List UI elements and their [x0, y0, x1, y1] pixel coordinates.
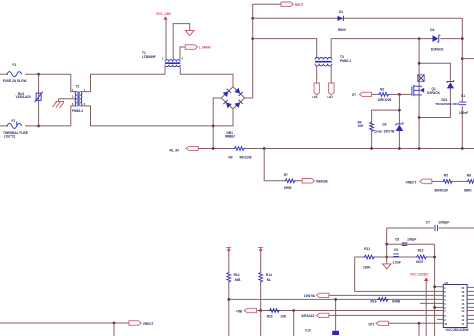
svg-text:R7: R7	[284, 173, 288, 177]
junction rail x399	[398, 147, 401, 150]
svg-text:100nF: 100nF	[459, 111, 468, 115]
svg-text:C7: C7	[426, 220, 430, 224]
svg-text:VRECT: VRECT	[406, 180, 417, 184]
svg-text:NL: NL	[267, 278, 271, 282]
svg-text:PM62-1: PM62-1	[340, 59, 351, 63]
svg-text:680K/1W: 680K/1W	[435, 189, 448, 193]
junction D1 line	[251, 17, 254, 20]
svg-text:T2: T2	[76, 85, 80, 89]
junction R13 line	[227, 298, 230, 301]
junction C10 top	[334, 298, 337, 301]
wire R4 to rail	[371, 132, 373, 148]
resistor R20	[267, 309, 287, 319]
wire T1 bottom pins on AC line	[165, 67, 180, 75]
svg-text:F1: F1	[13, 63, 17, 67]
svg-text:130K: 130K	[363, 265, 371, 269]
svg-text:1000pF: 1000pF	[438, 220, 449, 224]
svg-text:FUSE 2A SLOW: FUSE 2A SLOW	[3, 79, 27, 83]
power port VCC_DC/DC	[410, 273, 429, 336]
junction rail x264	[263, 147, 266, 150]
junction rail x462	[461, 147, 464, 150]
wire mains line L top	[0, 73, 7, 75]
svg-text:4K07: 4K07	[416, 260, 424, 264]
svg-text:C9: C9	[394, 248, 398, 252]
capacitor C7	[426, 220, 449, 231]
junction sense divider	[292, 309, 295, 312]
svg-text:U2: U2	[445, 281, 449, 285]
IC left stub pins	[420, 287, 443, 320]
capacitor C10	[305, 328, 339, 335]
wire T2 pin6 to bridge	[80, 106, 213, 126]
resistor R14	[259, 251, 272, 311]
transistor Q1	[405, 85, 441, 96]
junction aux line	[461, 57, 464, 60]
svg-text:D4: D4	[430, 28, 434, 32]
resistor R2	[378, 87, 392, 101]
junction bottom left	[113, 322, 116, 325]
wire bottom left line	[0, 322, 129, 324]
svg-text:UCC28C42DW: UCC28C42DW	[446, 328, 470, 332]
wire T3 primary line	[253, 39, 463, 58]
svg-text:10R/1206: 10R/1206	[378, 98, 392, 102]
svg-text:840B: 840B	[392, 299, 400, 303]
svg-text:Zener 15V/TB: Zener 15V/TB	[374, 130, 395, 134]
svg-text:LTB84NF: LTB84NF	[142, 55, 156, 59]
svg-text:R9: R9	[229, 156, 233, 160]
wire clamp right vertical	[461, 18, 463, 148]
svg-text:V150LA20: V150LA20	[16, 95, 31, 99]
svg-text:VCC_LBV: VCC_LBV	[156, 12, 172, 16]
wire bridge plus up	[245, 4, 281, 98]
svg-text:TRANZORB 200V: TRANZORB 200V	[435, 102, 459, 106]
wire from F1 to T2 pin1	[27, 74, 77, 91]
svg-text:8RB8J: 8RB8J	[225, 135, 235, 139]
wire mains line N bottom	[0, 125, 7, 127]
diode D4	[430, 28, 444, 52]
wire from F2 to T2 pin3	[27, 106, 77, 126]
wire comp top line	[387, 228, 474, 264]
junction T3 line	[251, 37, 254, 40]
port VRECT mid	[406, 179, 467, 184]
capacitor C8	[395, 237, 416, 245]
svg-text:R14: R14	[266, 273, 272, 277]
svg-text:PM62-2: PM62-2	[72, 109, 83, 113]
svg-text:10K: 10K	[358, 124, 365, 128]
svg-text:RECT: RECT	[295, 3, 304, 7]
svg-text:R600: R600	[338, 28, 346, 32]
junction D4 to clamp	[461, 37, 464, 40]
svg-text:D2PACK: D2PACK	[431, 48, 445, 52]
power VR tap R14	[258, 247, 263, 250]
svg-text:R12: R12	[418, 248, 424, 252]
svg-text:R8: R8	[467, 174, 471, 178]
svg-text:LB4: LB4	[328, 95, 334, 99]
wire T3 secondary pins down	[317, 66, 332, 83]
svg-text:680K: 680K	[464, 189, 472, 193]
svg-text:C10: C10	[305, 328, 311, 332]
junction drain node	[418, 37, 421, 40]
junction comp v1	[385, 243, 388, 246]
resistor R4	[358, 121, 374, 133]
wire bridge left pin down	[213, 98, 221, 149]
resistor R11	[363, 247, 375, 270]
resistor R8	[464, 174, 474, 193]
port RL_IN	[170, 146, 199, 152]
zener DZ1	[435, 80, 459, 106]
svg-text:R5: R5	[444, 174, 448, 178]
wire sense branch	[264, 149, 302, 181]
junction box top	[418, 62, 421, 65]
svg-text:D1: D1	[339, 10, 343, 14]
svg-text:R19: R19	[371, 299, 377, 303]
svg-text:100pF: 100pF	[407, 237, 416, 241]
junction rail x213	[212, 147, 215, 150]
junction AC/bridge	[212, 125, 215, 128]
zener D3	[374, 122, 403, 133]
port +5B	[236, 308, 443, 313]
port S/R1A32	[301, 313, 443, 318]
svg-text:ST: ST	[352, 93, 356, 97]
svg-text:L_MAIN: L_MAIN	[199, 46, 212, 50]
junction rail x371	[370, 147, 373, 150]
transistor Q1 tab	[418, 75, 424, 82]
junction comp v2	[385, 256, 388, 259]
port ST gate drive	[352, 92, 378, 97]
transformer T3	[315, 55, 351, 66]
junction R4 tap	[398, 109, 401, 112]
wire ground to T2 pin2	[59, 98, 77, 100]
svg-text:R11: R11	[364, 247, 370, 251]
fuse F1	[3, 63, 27, 83]
resistor R5	[435, 174, 453, 193]
resistor R13	[227, 251, 241, 336]
wire R2 to gate	[390, 93, 406, 95]
wire D1 line	[253, 17, 463, 19]
IC U2 box	[443, 281, 469, 332]
wire aux to edge	[462, 58, 474, 60]
chassis ground (earth)	[53, 99, 65, 108]
resistor R9	[229, 147, 252, 160]
svg-text:F2: F2	[12, 119, 16, 123]
wire comp to IC	[435, 244, 444, 336]
bridge rectifier DB1	[221, 87, 245, 139]
svg-text:R2: R2	[380, 87, 384, 91]
wire DT down	[418, 323, 420, 336]
power VR tap R13	[226, 247, 231, 250]
junction box bottom	[418, 116, 421, 119]
port RECT	[281, 2, 304, 7]
svg-text:1.5uF: 1.5uF	[393, 260, 401, 264]
svg-text:2: 2	[72, 95, 74, 99]
wire gate to R4/D3	[372, 94, 400, 124]
junction R12 right	[433, 256, 436, 259]
junction on line L	[37, 73, 40, 76]
wire T1 to bridge top	[180, 74, 233, 87]
wire divider down	[261, 311, 294, 336]
port DT1	[369, 321, 444, 326]
resistor R7	[284, 173, 296, 190]
svg-text:10K: 10K	[280, 314, 287, 318]
svg-text:R13: R13	[234, 273, 240, 277]
svg-text:C8: C8	[395, 237, 399, 241]
junction on line N	[37, 125, 40, 128]
wire R11 R12 line	[355, 256, 435, 258]
svg-text:S/R1A32: S/R1A32	[301, 314, 314, 318]
wire bridge bottom pin	[213, 109, 233, 126]
resistor R19	[371, 298, 401, 304]
junction DT line	[418, 322, 421, 325]
wire T2 pin4 to T1	[80, 74, 165, 91]
svg-text:1: 1	[162, 57, 164, 61]
wire R11 branch to pin	[355, 257, 444, 291]
svg-text:10W NL: 10W NL	[304, 294, 316, 298]
varistor RU1	[16, 74, 43, 126]
wire D3 to rail	[398, 131, 400, 149]
svg-text:R20: R20	[267, 314, 273, 318]
svg-text:4: 4	[182, 57, 184, 61]
wire bottom left down	[113, 323, 115, 336]
resistor R12	[416, 248, 428, 263]
fuse F2 thermal	[3, 119, 28, 138]
junction rail x419	[418, 147, 421, 150]
svg-text:0R/1206: 0R/1206	[240, 156, 252, 160]
wire primary rail	[198, 148, 474, 150]
port LB4 (down)	[328, 83, 335, 99]
diode D1	[338, 10, 346, 32]
capacitor C9	[393, 248, 401, 264]
common-mode choke T2	[72, 85, 86, 113]
port ISENSE	[302, 179, 328, 184]
port L_MAIN	[180, 45, 211, 60]
svg-text:0R05: 0R05	[284, 186, 292, 190]
junction R14 bottom	[259, 309, 262, 312]
ground GND T1	[173, 24, 194, 60]
svg-text:DT1: DT1	[369, 323, 375, 327]
wire C10 branch	[335, 299, 337, 330]
svg-text:LB3: LB3	[312, 95, 318, 99]
port LB3 (down)	[312, 83, 319, 99]
svg-text:+5B: +5B	[236, 310, 243, 314]
svg-text:C1: C1	[461, 94, 465, 98]
ground comp	[383, 264, 391, 269]
wire C8 line	[387, 243, 435, 245]
capacitor C1	[459, 94, 468, 115]
svg-text:D3: D3	[383, 123, 387, 127]
svg-text:VCC_DC/DC: VCC_DC/DC	[410, 273, 429, 277]
svg-text:RL_IN: RL_IN	[170, 148, 180, 152]
power port VCC_LBV	[156, 12, 172, 60]
port 10W NL	[304, 293, 444, 298]
wire drain vertical and DZ1 box	[419, 39, 450, 149]
svg-text:(102°C): (102°C)	[4, 134, 15, 138]
svg-text:ISENSE: ISENSE	[316, 179, 328, 183]
port VRECT bottom	[129, 321, 154, 327]
svg-text:54B: 54B	[235, 278, 242, 282]
svg-text:VRECT: VRECT	[143, 322, 154, 326]
IC right pin wires	[467, 287, 474, 323]
transformer T1	[142, 51, 184, 67]
wire pin4 line R13	[229, 298, 443, 300]
svg-text:D2PACK: D2PACK	[427, 91, 441, 95]
junction gate node	[398, 93, 401, 96]
